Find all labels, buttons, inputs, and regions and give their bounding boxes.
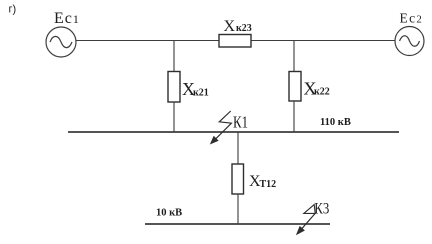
- source Ec1: [46, 27, 76, 57]
- wire: Xк21 to 110kV bus: [173, 102, 175, 132]
- svg-text:К3: К3: [314, 200, 329, 217]
- wire: top bus to Xк21: [173, 41, 175, 72]
- resistor Xк23: [219, 35, 251, 48]
- wire: 110kV bus to XT12: [237, 132, 239, 164]
- svg-text:10 кВ: 10 кВ: [156, 208, 182, 219]
- wire: Xк22 to 110kV bus: [293, 101, 295, 132]
- fault K1 lightning arrow: [210, 111, 232, 145]
- svg-text:Ec1: Ec1: [54, 10, 80, 27]
- source Ec2: [395, 27, 424, 56]
- resistor Xк22: [289, 72, 301, 102]
- svg-text:Ec2: Ec2: [400, 11, 424, 26]
- resistor Xк21: [168, 72, 180, 103]
- svg-text:к23: к23: [236, 23, 252, 34]
- svg-text:К1: К1: [233, 112, 248, 131]
- svg-text:к22: к22: [314, 87, 330, 98]
- wire: top bus to Xк22: [293, 41, 295, 72]
- wire: Xк23 to Ec2: [251, 40, 395, 42]
- fault K3 lightning arrow: [296, 205, 315, 236]
- bus 10 кВ: [145, 223, 330, 225]
- wire: Ec1 to Xк23: [76, 40, 219, 42]
- resistor XT12: [232, 164, 244, 194]
- svg-text:г): г): [9, 4, 17, 16]
- svg-text:к21: к21: [193, 88, 209, 99]
- svg-text:X: X: [224, 18, 236, 35]
- svg-text:110 кВ: 110 кВ: [320, 117, 351, 128]
- bus 110 кВ: [68, 131, 399, 133]
- wire: XT12 to 10kV bus: [237, 194, 239, 224]
- svg-text:Т12: Т12: [260, 179, 277, 190]
